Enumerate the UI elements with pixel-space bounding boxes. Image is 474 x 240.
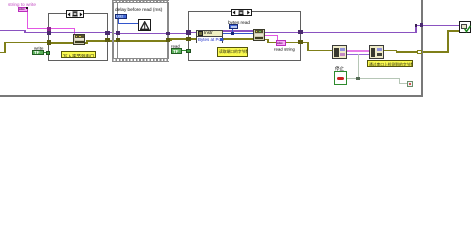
label read string [274,47,295,52]
wire: string (pink) inside case1 [50,28,75,29]
tunnel pink case1 left [47,27,51,31]
wire: olive up [4,42,6,53]
icon1 match/check VI [332,45,347,59]
wire: olive to VISA Read [170,38,254,40]
tunnel purple case2 right [298,30,302,34]
junction dot boolean [356,77,359,80]
wire: blue bytes-at-port to VISA Read [222,33,254,34]
wire: olive to case1 [4,42,50,44]
tunnel olive seq right [166,38,170,42]
property node Bytes at Port [196,30,223,43]
wire: string (pink) drop into VISA Write [74,28,75,35]
tunnel olive loop border (hollow) [417,50,422,55]
sequence bottom band [112,58,169,62]
wire: blue delay to Wait [117,19,118,24]
wire: purple into property node [188,32,198,34]
wire: pink out of VISA Read [263,35,278,36]
terminal delay (blue numeric) [115,14,127,19]
wire: olive out of VISA Read [263,39,269,41]
wire: VISA resource (purple) from left edge [0,30,26,32]
label delay before read (ms) [115,7,162,12]
Wait (ms) icon [138,19,151,31]
label read [171,44,180,49]
terminal string control [18,7,28,12]
wire: purple node to VISA Read [222,30,254,32]
yellow label case1 [61,51,96,58]
wire: boolean stop run [347,78,400,79]
tunnel olive case1 left [47,40,51,44]
wire: olive to icon1 [307,50,333,52]
wire: purple jog [24,30,26,33]
case2 selector label [231,9,251,17]
yellow label bottom right [367,60,413,67]
wire: purple main run to sequence [24,32,113,34]
sequence top band [112,0,169,3]
wire: olive jog down before tunnel [396,50,398,53]
wire: purple from VISA Read to loop border [263,32,417,34]
wire: olive jog up after VISA Write [86,40,88,44]
tunnel olive case1 right [105,38,109,42]
label bytes read [228,20,250,25]
wire: olive riser up to VISA Close [447,30,449,53]
terminal read boolean TF [171,48,182,54]
wire: green read TF to selector [182,50,187,52]
case1 frame [48,13,108,61]
wire: blue branch up to bytes read terminal [232,29,233,34]
case2 frame [188,11,302,61]
terminal bytes read (blue) [229,24,238,29]
tunnel purple seq left [116,31,120,35]
VISA Close icon [459,21,471,33]
wire: error (olive) from left edge [0,52,6,54]
tunnel purple seq right [166,32,170,36]
wire: purple rise before loop tunnel [415,25,417,34]
case1 selector label [66,10,84,18]
tunnel olive seq left [116,38,120,42]
while loop right border [421,0,423,97]
sequence right rail [167,2,169,59]
while loop bottom border [0,95,423,97]
label stop [335,65,344,72]
wire: olive out of case2 [267,42,309,44]
tunnel purple case2 left [186,30,190,34]
wire: green write TF to selector [43,52,47,54]
wire: purple across sequence [112,33,189,35]
label write [34,46,43,51]
label string to write [8,2,36,7]
VISA Read icon [253,29,265,41]
tunnel olive case2 right [298,40,302,44]
tunnel purple loop border [420,23,424,27]
wire: string (pink) from terminal down [27,9,28,28]
wire: olive through tunnel to riser [396,51,449,53]
case2 selector terminal [186,49,190,54]
sequence left rails [112,2,113,59]
junction dot blue [231,32,234,35]
wire: olive jog down to case2 level [170,38,172,41]
tunnel purple case1 right [105,31,109,35]
tunnel purple case1 left [47,31,51,35]
wire: olive across sequence [112,40,170,42]
wire: olive drop after case2 [307,42,309,52]
conditional terminal [407,81,413,87]
junction dot purple corner [415,24,418,27]
junction dot on string terminal [26,7,29,10]
terminal read string (pink) [276,40,287,46]
tunnel olive case2 left [186,37,190,41]
wire: purple to VISA Close [415,25,459,27]
wire: pink between icon1 icon2 [346,50,370,51]
wire: olive inside case1 [50,42,88,44]
case1 selector terminal [46,51,50,55]
VISA Write icon [73,34,85,45]
terminal write boolean TF [32,50,43,55]
yellow label case2 [217,47,248,57]
wire: olive icon2 to loop border [383,50,397,52]
wire: boolean branch down from violet [358,54,359,79]
wire: olive run to sequence [86,40,114,42]
wire: violet between icon1 icon2 [346,54,370,55]
terminal stop button [334,71,347,85]
wire: string (pink) horizontal to case1 [27,28,50,29]
icon2 match/check VI [369,45,385,59]
